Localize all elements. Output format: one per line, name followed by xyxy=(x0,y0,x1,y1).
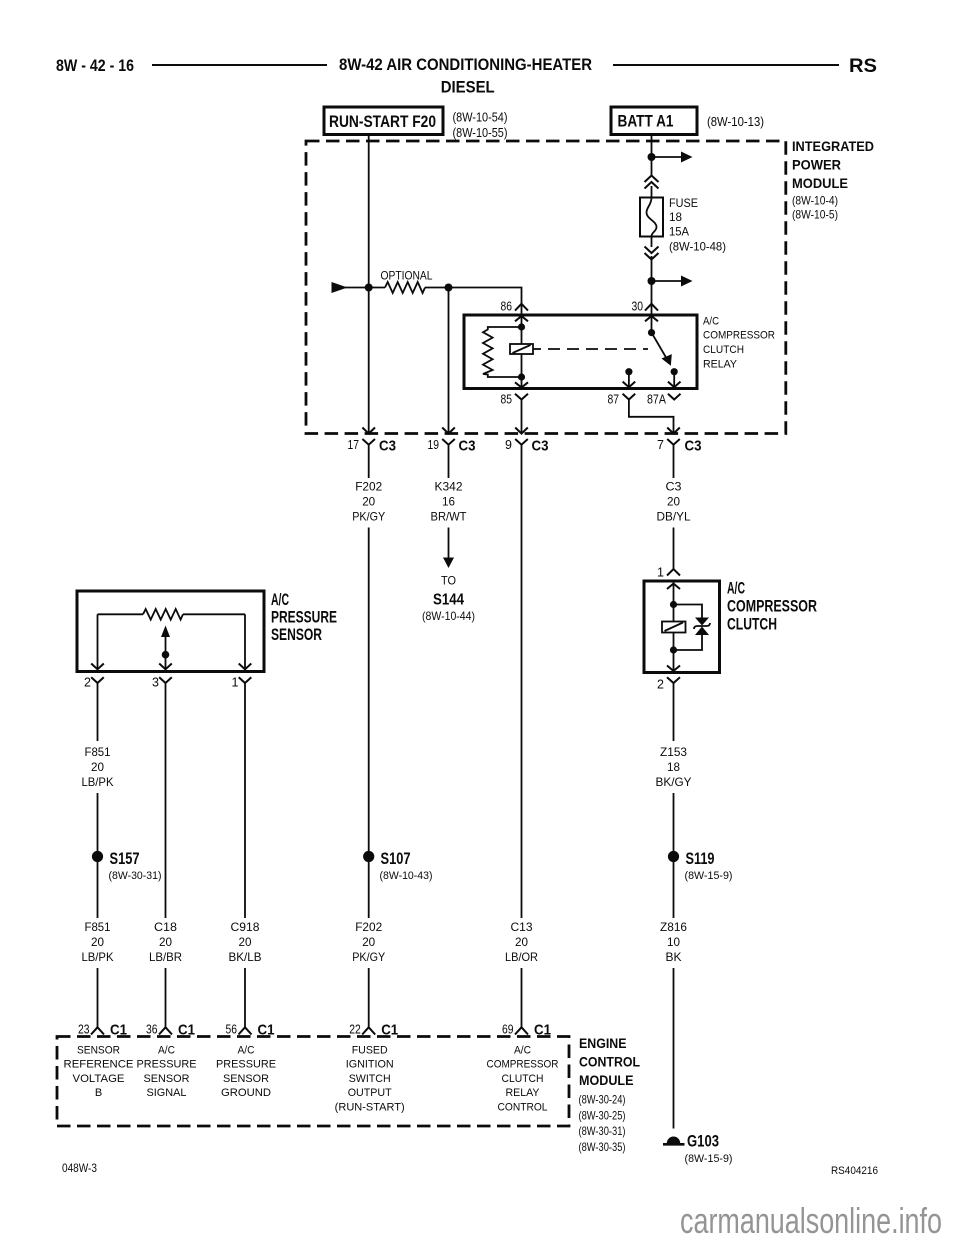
wire chevron to relay pin 30 xyxy=(651,256,653,304)
A/C compressor clutch box xyxy=(644,580,817,673)
wire C3 to clutch pin 1 xyxy=(673,528,675,570)
svg-text:FUSED: FUSED xyxy=(352,1045,388,1057)
splice S107 xyxy=(363,850,432,882)
wire label F851 20 LB/PK (lower) xyxy=(82,920,114,964)
svg-text:COMPRESSOR: COMPRESSOR xyxy=(703,330,775,342)
svg-text:OPTIONAL: OPTIONAL xyxy=(381,269,433,283)
ECM pin 23 function label xyxy=(64,1045,134,1100)
wire fuse to chevron xyxy=(651,237,653,248)
svg-text:Z816: Z816 xyxy=(660,920,687,934)
svg-text:PRESSURE: PRESSURE xyxy=(137,1059,197,1071)
connector 56 C1 xyxy=(226,1022,275,1039)
junction node 87 xyxy=(625,368,632,375)
svg-text:SENSOR: SENSOR xyxy=(271,626,322,644)
svg-text:(8W-10-4): (8W-10-4) xyxy=(792,194,838,208)
svg-text:8W-42 AIR CONDITIONING-HEATER: 8W-42 AIR CONDITIONING-HEATER xyxy=(339,55,592,74)
svg-text:C13: C13 xyxy=(511,920,533,934)
footer drawing number xyxy=(831,1165,878,1177)
svg-text:18: 18 xyxy=(669,210,682,224)
svg-text:(8W-10-5): (8W-10-5) xyxy=(792,208,838,222)
footer sheet number xyxy=(62,1161,97,1175)
svg-text:1: 1 xyxy=(232,676,239,690)
svg-text:RELAY: RELAY xyxy=(506,1087,541,1099)
svg-text:2: 2 xyxy=(84,676,91,690)
svg-text:C3: C3 xyxy=(666,480,682,494)
wire label Z816 10 BK xyxy=(660,920,687,964)
svg-text:BATT A1: BATT A1 xyxy=(618,113,674,131)
chevron clutch pin 2 inside xyxy=(667,666,680,672)
svg-text:F202: F202 xyxy=(355,920,382,934)
pin 2 connector clutch xyxy=(657,677,680,691)
wire label F202 20 PK/GY (lower) xyxy=(352,920,385,964)
potentiometer wiper arrow xyxy=(159,626,172,670)
svg-text:BK/LB: BK/LB xyxy=(229,950,262,964)
junction node clutch bottom xyxy=(670,646,677,653)
wire label C918 20 BK/LB xyxy=(229,920,262,964)
svg-text:20: 20 xyxy=(515,935,528,949)
svg-text:RUN-START F20: RUN-START F20 xyxy=(329,113,436,131)
svg-text:C3: C3 xyxy=(685,438,702,455)
svg-text:C918: C918 xyxy=(231,920,260,934)
svg-text:20: 20 xyxy=(91,935,104,949)
svg-text:23: 23 xyxy=(78,1023,90,1037)
ECM pin 69 function label xyxy=(487,1045,559,1114)
wire F202 long segment to splice xyxy=(368,528,370,853)
svg-text:S119: S119 xyxy=(686,850,715,868)
svg-text:A/C: A/C xyxy=(514,1045,531,1057)
resistor relay winding zigzag xyxy=(483,327,522,377)
wire 87 to box edge xyxy=(623,372,636,388)
wire F851 to ECM pin 23 xyxy=(97,968,99,1027)
connector 7 C3 xyxy=(657,428,701,455)
svg-text:SENSOR: SENSOR xyxy=(144,1073,190,1085)
junction node wiper xyxy=(162,651,170,659)
svg-text:19: 19 xyxy=(428,438,440,452)
svg-text:2: 2 xyxy=(657,678,664,692)
svg-text:36: 36 xyxy=(146,1023,158,1037)
junction node on batt feed xyxy=(648,153,656,161)
wire 19 C3 drop from optional junction xyxy=(448,288,450,434)
svg-text:RS404216: RS404216 xyxy=(831,1165,878,1177)
svg-text:VOLTAGE: VOLTAGE xyxy=(73,1073,125,1085)
svg-text:F851: F851 xyxy=(85,745,111,759)
page header RS xyxy=(849,56,877,77)
wire K342 upper segment xyxy=(448,451,450,479)
ground G103 xyxy=(663,1133,733,1166)
svg-text:(8W-15-9): (8W-15-9) xyxy=(685,1153,733,1165)
svg-text:CLUTCH: CLUTCH xyxy=(727,616,777,634)
svg-text:FUSE: FUSE xyxy=(669,196,698,210)
svg-text:COMPRESSOR: COMPRESSOR xyxy=(727,598,817,616)
svg-text:C3: C3 xyxy=(532,438,549,455)
svg-text:C3: C3 xyxy=(379,438,396,455)
wire Z153 upper segment xyxy=(673,690,675,741)
wire optional branch right segment to relay pin 86 xyxy=(425,288,522,304)
svg-text:17: 17 xyxy=(348,438,360,452)
ECM pin 56 function label xyxy=(216,1045,276,1100)
relay K? A/C compressor clutch relay box xyxy=(464,315,775,389)
wire BATT A1 feed vertical xyxy=(651,135,653,177)
svg-text:(8W-30-35): (8W-30-35) xyxy=(579,1140,626,1154)
svg-text:C3: C3 xyxy=(459,438,476,455)
svg-text:10: 10 xyxy=(667,935,680,949)
wire F202 to ECM pin 22 xyxy=(368,968,370,1027)
svg-text:Z153: Z153 xyxy=(660,745,687,759)
svg-text:22: 22 xyxy=(349,1023,361,1037)
connector 9 C3 xyxy=(505,428,548,455)
svg-text:SENSOR: SENSOR xyxy=(223,1073,269,1085)
svg-text:INTEGRATED: INTEGRATED xyxy=(792,138,874,154)
connector 22 C1 xyxy=(349,1022,398,1039)
wire C18 from sensor pin 3 xyxy=(165,690,167,918)
splice S119 xyxy=(668,850,733,882)
wire C3 upper segment xyxy=(673,451,675,479)
svg-text:7: 7 xyxy=(657,438,664,452)
svg-text:SWITCH: SWITCH xyxy=(349,1073,391,1085)
ECM pin 36 function label xyxy=(137,1045,197,1100)
svg-text:A/C: A/C xyxy=(271,591,289,609)
fuse F20 source box RUN-START F20 xyxy=(324,107,508,140)
svg-text:A/C: A/C xyxy=(727,580,745,598)
coil symbol clutch with diagonal xyxy=(662,622,686,633)
svg-text:BR/WT: BR/WT xyxy=(431,510,468,524)
node destination label TO S144 xyxy=(422,574,475,624)
svg-text:56: 56 xyxy=(226,1023,238,1037)
svg-text:LB/BR: LB/BR xyxy=(149,950,182,964)
pin 85 connector below box xyxy=(501,393,529,434)
pin 30 connector xyxy=(632,300,659,333)
svg-text:15A: 15A xyxy=(669,225,689,239)
svg-text:048W-3: 048W-3 xyxy=(62,1161,97,1175)
svg-text:RELAY: RELAY xyxy=(703,358,738,370)
svg-text:BK/GY: BK/GY xyxy=(656,775,692,789)
svg-text:CONTROL: CONTROL xyxy=(498,1101,548,1113)
engine control module dashed box xyxy=(57,1036,640,1154)
coil symbol box with diagonal xyxy=(510,344,541,354)
svg-text:RS: RS xyxy=(849,56,877,77)
pin 1 connector sensor xyxy=(232,676,252,691)
wire RUN-START F20 down through IPM to 17 C3 xyxy=(368,135,370,434)
wire Z816 to ground xyxy=(673,968,675,1129)
page header left xyxy=(56,56,134,75)
svg-text:PRESSURE: PRESSURE xyxy=(271,609,337,627)
svg-text:OUTPUT: OUTPUT xyxy=(348,1087,392,1099)
svg-text:8W - 42 - 16: 8W - 42 - 16 xyxy=(56,56,134,75)
switch armature with arrow xyxy=(652,333,672,366)
svg-text:(8W-10-54): (8W-10-54) xyxy=(453,111,508,125)
pin 86 connector xyxy=(501,300,529,322)
junction node optional to 19 C3 xyxy=(445,284,453,292)
wire 87A to box edge xyxy=(668,372,681,388)
svg-text:DIESEL: DIESEL xyxy=(441,78,495,97)
svg-text:F851: F851 xyxy=(85,920,111,934)
svg-text:MODULE: MODULE xyxy=(792,175,848,191)
junction node run-start wire / optional xyxy=(365,284,373,292)
ECM pin 22 function label xyxy=(335,1045,405,1114)
svg-text:SENSOR: SENSOR xyxy=(77,1045,120,1057)
svg-text:20: 20 xyxy=(91,760,104,774)
fuse 18 15A xyxy=(640,196,726,254)
resistor sensor element xyxy=(143,609,183,620)
svg-text:C1: C1 xyxy=(258,1022,275,1039)
svg-text:K342: K342 xyxy=(435,480,463,494)
svg-text:GROUND: GROUND xyxy=(221,1087,271,1099)
wire clutch coil vertical xyxy=(673,583,675,671)
svg-text:carmanualsonline.info: carmanualsonline.info xyxy=(680,1200,942,1241)
junction node switch common xyxy=(648,329,655,336)
svg-text:9: 9 xyxy=(505,438,512,452)
svg-text:20: 20 xyxy=(667,495,680,509)
wire label C3 20 DB/YL xyxy=(657,480,691,524)
svg-text:A/C: A/C xyxy=(158,1045,175,1057)
svg-text:(8W-10-43): (8W-10-43) xyxy=(380,870,433,882)
wire C918 to ECM pin 56 xyxy=(244,968,246,1027)
svg-text:20: 20 xyxy=(239,935,252,949)
connector 23 C1 xyxy=(78,1022,127,1039)
svg-text:(8W-30-24): (8W-30-24) xyxy=(579,1093,626,1107)
wire sensor pin 1 leg xyxy=(239,614,252,669)
svg-text:87A: 87A xyxy=(647,393,667,407)
A/C pressure sensor box xyxy=(77,591,337,672)
pin 1 connector clutch xyxy=(657,566,680,590)
svg-text:85: 85 xyxy=(501,393,513,407)
connector 19 C3 xyxy=(428,428,476,455)
svg-text:16: 16 xyxy=(442,495,455,509)
wire label C18 20 LB/BR xyxy=(149,920,182,964)
svg-text:MODULE: MODULE xyxy=(579,1073,634,1088)
wire optional branch left segment xyxy=(345,287,385,289)
wire C13 from 9 C3 down xyxy=(521,451,523,919)
svg-text:F202: F202 xyxy=(355,480,382,494)
svg-text:A/C: A/C xyxy=(703,315,719,327)
svg-text:(8W-30-31): (8W-30-31) xyxy=(579,1124,626,1138)
page header title xyxy=(339,55,592,97)
pin 87A connector below box xyxy=(647,393,681,407)
wire F202 below splice xyxy=(368,857,370,919)
wire label F851 20 LB/PK (upper) xyxy=(82,745,114,789)
wire coil branch vertical xyxy=(521,317,523,387)
svg-text:C1: C1 xyxy=(534,1022,551,1039)
svg-text:G103: G103 xyxy=(687,1133,719,1151)
svg-text:COMPRESSOR: COMPRESSOR xyxy=(487,1059,559,1071)
svg-text:A/C: A/C xyxy=(238,1045,255,1057)
svg-text:86: 86 xyxy=(501,300,513,314)
wire sensor pin 2 leg xyxy=(91,614,104,669)
junction node 87A xyxy=(671,368,678,375)
header rule right xyxy=(613,64,839,66)
connector 36 C1 xyxy=(146,1022,195,1039)
junction node coil top xyxy=(518,323,525,330)
wire Z153 to splice S119 xyxy=(673,793,675,918)
svg-text:30: 30 xyxy=(632,300,644,314)
wire C18 to ECM pin 36 xyxy=(165,968,167,1027)
resistor OPTIONAL xyxy=(381,269,433,294)
sensor internal top rail xyxy=(98,613,246,615)
battery feed source box BATT A1 xyxy=(611,107,764,135)
svg-text:CLUTCH: CLUTCH xyxy=(703,344,744,356)
diode clamp branch xyxy=(674,605,711,651)
svg-text:(8W-10-13): (8W-10-13) xyxy=(707,115,764,129)
wire label C13 20 LB/OR xyxy=(505,920,538,964)
junction node coil bottom xyxy=(518,373,525,380)
dashed actuation link xyxy=(548,348,648,350)
svg-text:SIGNAL: SIGNAL xyxy=(147,1087,187,1099)
svg-text:IGNITION: IGNITION xyxy=(346,1059,394,1071)
wire label Z153 18 BK/GY xyxy=(656,745,692,789)
svg-text:PK/GY: PK/GY xyxy=(352,950,385,964)
svg-text:B: B xyxy=(95,1087,102,1099)
chevron pin 85 inside xyxy=(515,382,528,387)
header rule left xyxy=(152,64,327,66)
svg-text:PRESSURE: PRESSURE xyxy=(216,1059,276,1071)
watermark xyxy=(680,1200,942,1241)
junction node clutch top xyxy=(670,601,677,608)
wire F202 upper segment xyxy=(368,451,370,479)
svg-text:87: 87 xyxy=(608,393,620,407)
pin 87 connector below box xyxy=(608,393,636,407)
connector 69 C1 xyxy=(502,1022,551,1039)
off-page double chevron up xyxy=(645,176,659,189)
svg-text:(8W-30-25): (8W-30-25) xyxy=(579,1109,626,1123)
svg-text:PK/GY: PK/GY xyxy=(352,510,385,524)
svg-text:C1: C1 xyxy=(381,1022,398,1039)
svg-text:(8W-10-55): (8W-10-55) xyxy=(453,126,508,140)
wire F851 upper segment xyxy=(97,690,99,741)
junction node below fuse xyxy=(648,277,656,285)
wire chevron to fuse xyxy=(651,186,653,198)
svg-text:C18: C18 xyxy=(154,920,177,934)
svg-text:LB/PK: LB/PK xyxy=(82,775,114,789)
wire C918 from sensor pin 1 xyxy=(244,690,246,918)
pin 2 connector sensor xyxy=(84,676,104,691)
svg-text:BK: BK xyxy=(666,950,682,964)
wire K342 to off-page arrow xyxy=(443,528,454,569)
svg-text:REFERENCE: REFERENCE xyxy=(64,1059,134,1071)
svg-text:1: 1 xyxy=(657,566,664,580)
svg-text:CONTROL: CONTROL xyxy=(579,1055,640,1070)
branch arrow to other circuits (below fuse) xyxy=(652,276,693,287)
wire label K342 16 BR/WT xyxy=(431,480,468,524)
svg-text:POWER: POWER xyxy=(792,157,841,173)
svg-text:C1: C1 xyxy=(110,1022,127,1039)
integrated power module dashed box xyxy=(306,138,874,434)
svg-text:DB/YL: DB/YL xyxy=(657,510,691,524)
svg-text:(8W-10-48): (8W-10-48) xyxy=(669,240,726,254)
branch arrow to other circuits (top) xyxy=(652,152,693,163)
wire label F202 20 PK/GY (upper) xyxy=(352,480,385,524)
svg-text:LB/OR: LB/OR xyxy=(505,950,538,964)
wire F851 to splice S157 xyxy=(97,793,99,918)
svg-text:ENGINE: ENGINE xyxy=(579,1036,627,1051)
pin 3 connector sensor xyxy=(152,676,172,691)
svg-text:(RUN-START): (RUN-START) xyxy=(335,1101,405,1113)
svg-text:TO: TO xyxy=(441,574,456,588)
wire C13 to ECM pin 69 xyxy=(521,968,523,1027)
svg-text:(8W-10-44): (8W-10-44) xyxy=(422,609,475,623)
svg-text:CLUTCH: CLUTCH xyxy=(502,1073,544,1085)
svg-text:(8W-30-31): (8W-30-31) xyxy=(109,870,162,882)
wire pin 87 jog to 7 C3 xyxy=(629,400,674,434)
svg-text:69: 69 xyxy=(502,1023,514,1037)
off-page source arrow into OPTIONAL branch xyxy=(332,282,348,293)
svg-text:LB/PK: LB/PK xyxy=(82,950,114,964)
svg-text:(8W-15-9): (8W-15-9) xyxy=(685,870,733,882)
svg-text:20: 20 xyxy=(159,935,172,949)
svg-text:S107: S107 xyxy=(381,850,411,868)
svg-text:S144: S144 xyxy=(433,592,464,609)
svg-text:18: 18 xyxy=(667,760,680,774)
svg-text:S157: S157 xyxy=(110,850,140,868)
svg-text:3: 3 xyxy=(152,676,159,690)
svg-text:C1: C1 xyxy=(178,1022,195,1039)
off-page double chevron down xyxy=(645,247,659,260)
svg-text:20: 20 xyxy=(362,495,375,509)
connector 17 C3 xyxy=(348,428,397,455)
svg-text:20: 20 xyxy=(362,935,375,949)
splice S157 xyxy=(92,850,162,882)
